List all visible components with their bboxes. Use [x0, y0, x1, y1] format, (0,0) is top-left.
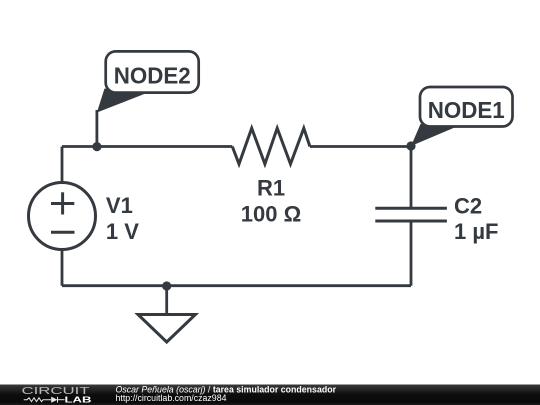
svg-text:V1: V1 [106, 193, 133, 218]
wire left rail upper [61, 147, 64, 183]
wire top rail right segment [310, 145, 411, 148]
node NODE2 flag [97, 51, 199, 146]
svg-text:C2: C2 [454, 194, 482, 219]
wire left rail lower [61, 250, 64, 286]
wire right rail lower [410, 221, 413, 286]
resistor R1 [232, 128, 310, 164]
footer bar [0, 385, 540, 405]
CircuitLab logo zigzag and diode [24, 397, 65, 403]
svg-text:1 µF: 1 µF [454, 219, 498, 244]
svg-text:NODE1: NODE1 [428, 97, 505, 123]
node A junction dot [92, 142, 101, 151]
svg-text:100 Ω: 100 Ω [241, 202, 301, 227]
svg-text:LAB: LAB [65, 394, 92, 404]
svg-text:NODE2: NODE2 [114, 62, 191, 88]
CircuitLab logo diode triangle [51, 397, 57, 403]
voltage source V1 [29, 183, 96, 250]
svg-text:http://circuitlab.com/czaz984: http://circuitlab.com/czaz984 [116, 393, 227, 403]
node NODE1 flag [411, 87, 513, 146]
capacitor C2 [375, 208, 447, 221]
svg-text:1 V: 1 V [106, 219, 139, 244]
ground [138, 281, 195, 342]
wire top rail left segment [62, 145, 232, 148]
node B junction dot [406, 141, 415, 150]
wire bottom rail [62, 284, 411, 287]
wire right rail upper [410, 147, 413, 209]
svg-text:R1: R1 [257, 176, 285, 201]
